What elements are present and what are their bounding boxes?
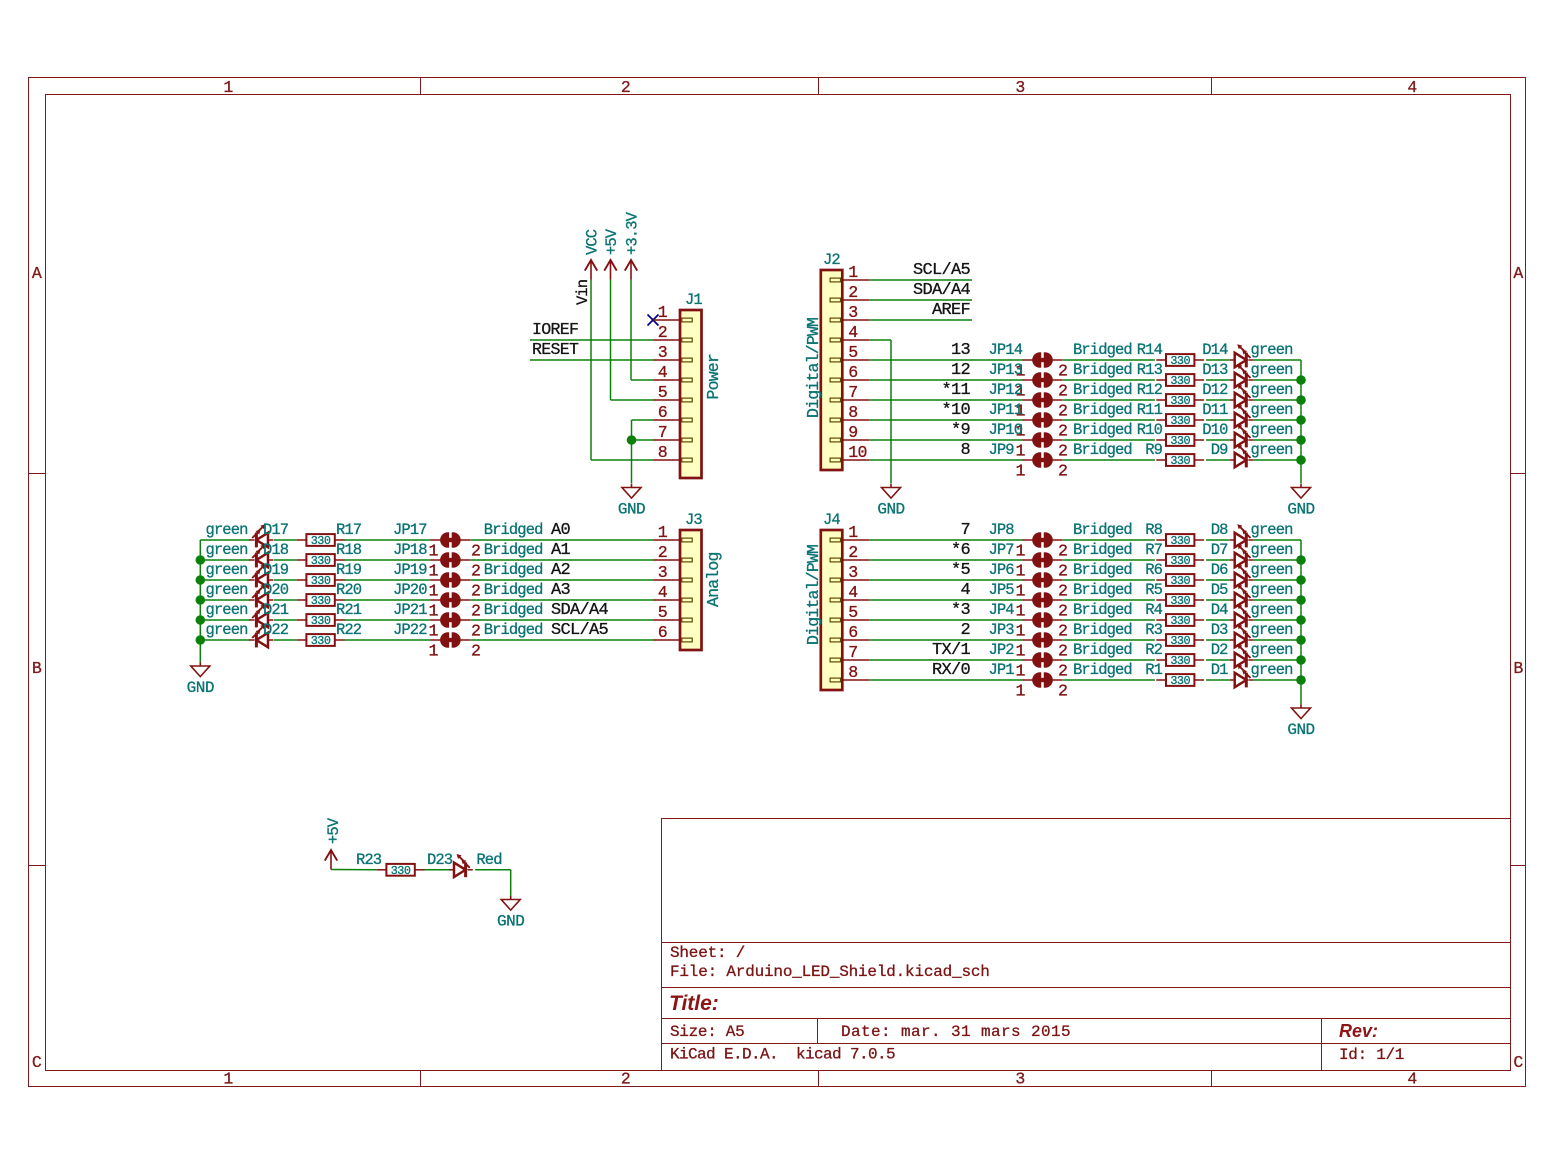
svg-text:JP6: JP6	[989, 561, 1015, 579]
svg-text:330: 330	[391, 864, 411, 878]
svg-text:2: 2	[471, 542, 480, 561]
svg-text:330: 330	[1170, 374, 1190, 388]
svg-text:SDA/A4: SDA/A4	[913, 281, 971, 300]
svg-text:D8: D8	[1211, 521, 1228, 539]
svg-text:green: green	[1251, 581, 1293, 599]
svg-text:2: 2	[471, 562, 480, 581]
svg-text:2: 2	[1058, 362, 1067, 381]
svg-text:green: green	[205, 541, 247, 559]
svg-text:D7: D7	[1211, 541, 1228, 559]
svg-text:JP9: JP9	[989, 441, 1015, 459]
svg-text:2: 2	[1058, 542, 1067, 561]
svg-text:Bridged: Bridged	[1073, 401, 1132, 419]
svg-text:330: 330	[1170, 454, 1190, 468]
svg-text:+5V: +5V	[325, 817, 343, 844]
svg-text:*3: *3	[951, 601, 971, 620]
svg-text:1: 1	[1015, 602, 1025, 621]
svg-text:4: 4	[1407, 78, 1417, 97]
svg-text:green: green	[1251, 441, 1293, 459]
svg-text:green: green	[1251, 621, 1293, 639]
svg-text:J3: J3	[685, 511, 702, 529]
svg-text:R21: R21	[336, 601, 362, 619]
svg-text:Bridged: Bridged	[1073, 541, 1132, 559]
svg-text:1: 1	[223, 78, 233, 97]
svg-text:330: 330	[311, 574, 331, 588]
svg-text:R13: R13	[1137, 361, 1163, 379]
svg-text:A0: A0	[551, 521, 571, 540]
svg-text:GND: GND	[1287, 721, 1314, 739]
svg-text:green: green	[1251, 661, 1293, 679]
svg-text:Bridged: Bridged	[1073, 641, 1132, 659]
svg-text:1: 1	[1015, 562, 1025, 581]
svg-text:RX/0: RX/0	[932, 661, 971, 680]
svg-text:D12: D12	[1202, 381, 1228, 399]
svg-text:JP5: JP5	[989, 581, 1015, 599]
svg-text:R5: R5	[1145, 581, 1162, 599]
svg-text:Bridged: Bridged	[484, 541, 543, 559]
svg-text:R2: R2	[1145, 641, 1162, 659]
svg-text:GND: GND	[187, 679, 214, 697]
svg-text:4: 4	[848, 583, 858, 602]
svg-text:1: 1	[428, 542, 438, 561]
svg-text:4: 4	[658, 583, 668, 602]
svg-text:1: 1	[428, 562, 438, 581]
svg-text:JP22: JP22	[393, 621, 427, 639]
svg-text:D1: D1	[1211, 661, 1228, 679]
svg-text:2: 2	[658, 543, 667, 562]
svg-text:Bridged: Bridged	[1073, 601, 1132, 619]
svg-text:KiCad E.D.A. kicad 7.0.5: KiCad E.D.A. kicad 7.0.5	[670, 1046, 895, 1064]
svg-text:9: 9	[848, 423, 857, 442]
svg-text:R10: R10	[1137, 421, 1163, 439]
svg-text:green: green	[1251, 361, 1293, 379]
svg-text:green: green	[1251, 641, 1293, 659]
svg-text:2: 2	[471, 582, 480, 601]
svg-text:330: 330	[1170, 394, 1190, 408]
svg-text:3: 3	[658, 343, 667, 362]
svg-text:2: 2	[471, 602, 480, 621]
svg-text:IOREF: IOREF	[532, 320, 578, 339]
svg-text:GND: GND	[877, 501, 904, 519]
svg-text:R17: R17	[336, 521, 362, 539]
svg-text:*9: *9	[951, 421, 971, 440]
svg-text:8: 8	[848, 663, 857, 682]
svg-text:5: 5	[848, 603, 857, 622]
svg-text:330: 330	[311, 554, 331, 568]
svg-text:green: green	[1251, 381, 1293, 399]
svg-text:1: 1	[1015, 662, 1025, 681]
svg-text:JP13: JP13	[989, 361, 1023, 379]
svg-text:A3: A3	[551, 581, 571, 600]
svg-text:B: B	[1513, 659, 1523, 678]
svg-text:Bridged: Bridged	[1073, 341, 1132, 359]
svg-text:+3.3V: +3.3V	[624, 211, 642, 255]
svg-text:2: 2	[1058, 402, 1067, 421]
svg-text:2: 2	[1058, 662, 1067, 681]
svg-text:1: 1	[1015, 442, 1025, 461]
svg-text:JP17: JP17	[393, 521, 427, 539]
svg-text:Digital/PWM: Digital/PWM	[804, 545, 823, 645]
svg-text:2: 2	[1058, 462, 1067, 481]
svg-text:green: green	[205, 581, 247, 599]
svg-text:1: 1	[1015, 582, 1025, 601]
svg-text:1: 1	[1015, 542, 1025, 561]
svg-text:3: 3	[848, 563, 857, 582]
svg-text:2: 2	[1058, 682, 1067, 701]
svg-text:D9: D9	[1211, 441, 1228, 459]
svg-text:R18: R18	[336, 541, 362, 559]
svg-text:green: green	[1251, 401, 1293, 419]
svg-text:VCC: VCC	[584, 229, 602, 255]
svg-text:1: 1	[428, 582, 438, 601]
svg-text:330: 330	[311, 614, 331, 628]
svg-text:330: 330	[1170, 554, 1190, 568]
svg-text:2: 2	[1058, 382, 1067, 401]
svg-text:8: 8	[848, 403, 857, 422]
svg-text:D14: D14	[1202, 341, 1228, 359]
svg-text:Bridged: Bridged	[1073, 561, 1132, 579]
svg-text:D10: D10	[1202, 421, 1228, 439]
svg-text:6: 6	[658, 403, 667, 422]
svg-text:GND: GND	[497, 913, 524, 931]
svg-text:8: 8	[960, 441, 970, 460]
svg-text:green: green	[1251, 521, 1293, 539]
svg-text:JP7: JP7	[989, 541, 1015, 559]
svg-text:JP20: JP20	[393, 581, 427, 599]
svg-text:Rev:: Rev:	[1339, 1021, 1378, 1041]
svg-text:+5V: +5V	[603, 228, 621, 255]
svg-text:1: 1	[1015, 642, 1025, 661]
svg-text:2: 2	[1058, 422, 1067, 441]
svg-text:Bridged: Bridged	[484, 581, 543, 599]
svg-text:D4: D4	[1211, 601, 1228, 619]
svg-text:Bridged: Bridged	[484, 521, 543, 539]
svg-text:JP10: JP10	[989, 421, 1023, 439]
svg-text:6: 6	[658, 623, 667, 642]
svg-text:D22: D22	[263, 621, 289, 639]
svg-text:Bridged: Bridged	[1073, 381, 1132, 399]
svg-text:Bridged: Bridged	[1073, 441, 1132, 459]
svg-text:R6: R6	[1145, 561, 1162, 579]
svg-text:D20: D20	[263, 581, 289, 599]
svg-text:Bridged: Bridged	[1073, 521, 1132, 539]
svg-text:TX/1: TX/1	[932, 641, 971, 660]
svg-text:J4: J4	[823, 511, 840, 529]
svg-text:Bridged: Bridged	[1073, 581, 1132, 599]
svg-text:R9: R9	[1145, 441, 1162, 459]
svg-text:330: 330	[1170, 654, 1190, 668]
svg-text:5: 5	[848, 343, 857, 362]
svg-text:D23: D23	[427, 851, 453, 869]
svg-text:7: 7	[848, 643, 857, 662]
svg-text:5: 5	[658, 383, 667, 402]
svg-text:D17: D17	[263, 521, 289, 539]
svg-text:D21: D21	[263, 601, 289, 619]
svg-text:2: 2	[848, 283, 857, 302]
svg-text:4: 4	[960, 581, 970, 600]
svg-text:JP2: JP2	[989, 641, 1015, 659]
svg-text:10: 10	[848, 443, 867, 462]
svg-text:7: 7	[960, 521, 970, 540]
svg-text:4: 4	[1407, 1070, 1417, 1089]
svg-text:1: 1	[1015, 622, 1025, 641]
svg-text:1: 1	[428, 642, 438, 661]
svg-text:330: 330	[1170, 574, 1190, 588]
svg-text:R7: R7	[1145, 541, 1162, 559]
svg-text:JP1: JP1	[989, 661, 1015, 679]
svg-text:2: 2	[471, 642, 480, 661]
svg-text:D19: D19	[263, 561, 289, 579]
svg-text:1: 1	[848, 263, 858, 282]
svg-text:R22: R22	[336, 621, 362, 639]
svg-text:B: B	[32, 659, 42, 678]
svg-text:2: 2	[471, 622, 480, 641]
svg-text:Red: Red	[476, 851, 501, 869]
svg-text:C: C	[32, 1053, 42, 1072]
svg-text:A: A	[32, 264, 42, 283]
svg-text:J1: J1	[685, 291, 702, 309]
svg-text:D6: D6	[1211, 561, 1228, 579]
svg-text:AREF: AREF	[932, 301, 970, 320]
svg-text:330: 330	[311, 634, 331, 648]
svg-text:green: green	[205, 621, 247, 639]
svg-text:2: 2	[1058, 642, 1067, 661]
svg-text:R8: R8	[1145, 521, 1162, 539]
svg-text:JP21: JP21	[393, 601, 427, 619]
svg-text:330: 330	[1170, 614, 1190, 628]
svg-text:8: 8	[658, 443, 667, 462]
svg-text:2: 2	[848, 543, 857, 562]
svg-text:JP4: JP4	[989, 601, 1015, 619]
svg-text:Analog: Analog	[704, 552, 723, 607]
svg-text:green: green	[1251, 341, 1293, 359]
svg-text:2: 2	[1058, 602, 1067, 621]
svg-text:Id: 1/1: Id: 1/1	[1339, 1046, 1404, 1064]
svg-text:A: A	[1513, 264, 1523, 283]
svg-text:*6: *6	[951, 541, 971, 560]
svg-text:JP11: JP11	[989, 401, 1023, 419]
svg-text:Bridged: Bridged	[484, 601, 543, 619]
svg-text:1: 1	[223, 1070, 233, 1089]
svg-text:1: 1	[1015, 462, 1025, 481]
svg-text:GND: GND	[618, 501, 645, 519]
svg-text:Title:: Title:	[669, 992, 719, 1015]
svg-text:D2: D2	[1211, 641, 1228, 659]
svg-text:green: green	[1251, 421, 1293, 439]
svg-text:Size: A5: Size: A5	[670, 1023, 744, 1041]
svg-text:R4: R4	[1145, 601, 1162, 619]
svg-text:R12: R12	[1137, 381, 1163, 399]
svg-text:330: 330	[1170, 594, 1190, 608]
svg-text:R3: R3	[1145, 621, 1162, 639]
svg-text:green: green	[205, 601, 247, 619]
svg-text:330: 330	[1170, 354, 1190, 368]
svg-text:Bridged: Bridged	[484, 621, 543, 639]
svg-text:Bridged: Bridged	[1073, 621, 1132, 639]
svg-text:2: 2	[621, 1070, 630, 1089]
svg-text:330: 330	[1170, 534, 1190, 548]
svg-text:6: 6	[848, 623, 857, 642]
svg-text:330: 330	[1170, 674, 1190, 688]
svg-text:1: 1	[428, 622, 438, 641]
svg-text:*11: *11	[941, 381, 970, 400]
svg-text:D3: D3	[1211, 621, 1228, 639]
svg-text:2: 2	[960, 621, 970, 640]
svg-text:*10: *10	[941, 401, 970, 420]
svg-text:2: 2	[1058, 562, 1067, 581]
svg-text:1: 1	[848, 523, 858, 542]
svg-text:SCL/A5: SCL/A5	[551, 621, 609, 640]
svg-text:330: 330	[311, 534, 331, 548]
svg-text:6: 6	[848, 363, 857, 382]
svg-text:D5: D5	[1211, 581, 1228, 599]
svg-text:R14: R14	[1137, 341, 1163, 359]
svg-text:Bridged: Bridged	[1073, 661, 1132, 679]
svg-text:JP3: JP3	[989, 621, 1015, 639]
svg-text:Bridged: Bridged	[1073, 421, 1132, 439]
svg-text:7: 7	[848, 383, 857, 402]
svg-text:SCL/A5: SCL/A5	[913, 261, 971, 280]
svg-text:R19: R19	[336, 561, 362, 579]
svg-text:A2: A2	[551, 561, 570, 580]
svg-text:1: 1	[658, 523, 668, 542]
svg-text:green: green	[1251, 561, 1293, 579]
svg-text:R23: R23	[356, 851, 382, 869]
svg-text:R20: R20	[336, 581, 362, 599]
svg-text:Digital/PWM: Digital/PWM	[804, 318, 823, 418]
svg-text:*5: *5	[951, 561, 971, 580]
svg-text:4: 4	[658, 363, 668, 382]
svg-text:12: 12	[951, 361, 970, 380]
svg-text:R11: R11	[1137, 401, 1163, 419]
svg-text:RESET: RESET	[532, 340, 579, 359]
svg-text:330: 330	[1170, 634, 1190, 648]
svg-text:2: 2	[1058, 442, 1067, 461]
svg-text:330: 330	[1170, 434, 1190, 448]
svg-text:Power: Power	[704, 354, 723, 400]
svg-text:green: green	[205, 561, 247, 579]
svg-text:2: 2	[1058, 582, 1067, 601]
svg-text:330: 330	[1170, 414, 1190, 428]
svg-text:3: 3	[848, 303, 857, 322]
svg-text:J2: J2	[823, 251, 840, 269]
svg-text:JP8: JP8	[989, 521, 1015, 539]
svg-text:2: 2	[621, 78, 630, 97]
svg-text:green: green	[1251, 601, 1293, 619]
svg-text:GND: GND	[1287, 501, 1314, 519]
svg-text:JP12: JP12	[989, 381, 1023, 399]
svg-text:Vin: Vin	[574, 280, 592, 305]
svg-text:D13: D13	[1202, 361, 1228, 379]
svg-text:2: 2	[658, 323, 667, 342]
svg-text:7: 7	[658, 423, 667, 442]
svg-text:JP14: JP14	[989, 341, 1023, 359]
svg-text:3: 3	[658, 563, 667, 582]
svg-text:SDA/A4: SDA/A4	[551, 601, 609, 620]
svg-text:green: green	[205, 521, 247, 539]
svg-text:2: 2	[1058, 622, 1067, 641]
svg-text:1: 1	[658, 303, 668, 322]
svg-text:5: 5	[658, 603, 667, 622]
svg-text:D11: D11	[1202, 401, 1228, 419]
svg-text:JP19: JP19	[393, 561, 427, 579]
svg-text:C: C	[1513, 1053, 1523, 1072]
svg-text:4: 4	[848, 323, 858, 342]
svg-text:330: 330	[311, 594, 331, 608]
svg-text:Date: mar. 31 mars 2015: Date: mar. 31 mars 2015	[841, 1023, 1071, 1041]
svg-text:green: green	[1251, 541, 1293, 559]
svg-text:Sheet: /: Sheet: /	[670, 944, 745, 962]
svg-text:File: Arduino_LED_Shield.kicad: File: Arduino_LED_Shield.kicad_sch	[670, 963, 990, 981]
svg-text:JP18: JP18	[393, 541, 427, 559]
svg-text:3: 3	[1015, 78, 1024, 97]
svg-text:Bridged: Bridged	[1073, 361, 1132, 379]
svg-text:Bridged: Bridged	[484, 561, 543, 579]
svg-text:13: 13	[951, 341, 971, 360]
svg-text:1: 1	[1015, 682, 1025, 701]
svg-text:3: 3	[1015, 1070, 1024, 1089]
svg-text:D18: D18	[263, 541, 289, 559]
svg-text:A1: A1	[551, 541, 571, 560]
svg-text:R1: R1	[1145, 661, 1162, 679]
svg-text:1: 1	[428, 602, 438, 621]
